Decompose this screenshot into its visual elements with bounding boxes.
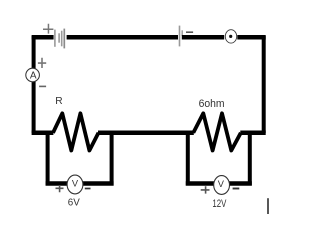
wire: right drop of 12V voltmeter loop	[248, 131, 252, 186]
battery B1 plate 2 (short)	[58, 33, 60, 42]
wire: top wire segment left of battery B1	[32, 35, 54, 40]
svg-text:6V: 6V	[68, 198, 80, 209]
wire: right vertical of main loop	[262, 36, 266, 133]
svg-text:V: V	[218, 179, 225, 189]
wire: middle rail between resistors	[98, 131, 194, 136]
minus sign of ammeter	[39, 85, 46, 87]
resistor 6ohm zigzag	[193, 113, 241, 150]
wire: middle rail right stub	[240, 131, 265, 136]
stray text cursor mark	[267, 198, 269, 214]
battery B1 plate 4 (longest)	[63, 29, 65, 49]
wire: right drop of 6V voltmeter loop	[110, 131, 114, 186]
cell B2 short plate	[181, 30, 183, 36]
svg-text:R: R	[55, 96, 62, 107]
wire: top wire segment between battery B1 and cell B2	[67, 35, 178, 40]
minus sign at 6V voltmeter	[85, 188, 91, 190]
cell B2 long plate	[179, 26, 181, 47]
minus sign of cell B2	[186, 31, 193, 33]
wire: bottom wire of 6V voltmeter loop	[46, 181, 114, 186]
ammeter A1	[26, 68, 40, 82]
wire: top wire segment right of lamp	[237, 35, 265, 40]
svg-text:6ohm: 6ohm	[199, 98, 225, 110]
battery B1 plate 1 (long)	[54, 30, 56, 47]
resistor R zigzag	[53, 113, 99, 150]
wire: top wire segment between cell B2 and lamp	[182, 35, 224, 40]
wire: bottom wire of 12V voltmeter loop	[186, 181, 252, 186]
plus sign of ammeter	[38, 58, 46, 68]
voltmeter V2 (12V)	[214, 176, 230, 195]
minus sign at 12V voltmeter	[233, 188, 240, 190]
wire: middle rail left stub	[32, 131, 54, 136]
wire: left vertical of main loop	[32, 36, 36, 133]
plus sign at 6V voltmeter	[56, 185, 64, 192]
wire: left drop of 6V voltmeter loop	[46, 131, 50, 186]
svg-text:V: V	[72, 178, 79, 188]
wire: left drop of 12V voltmeter loop	[186, 131, 190, 186]
lamp L1 (circle with dot)	[225, 30, 236, 43]
plus sign of battery B1	[43, 24, 53, 34]
svg-text:12V: 12V	[212, 198, 226, 210]
battery B1 plate 3 (long)	[61, 31, 63, 47]
plus sign at 12V voltmeter	[201, 186, 210, 193]
voltmeter V1 (6V)	[67, 175, 83, 194]
svg-text:A: A	[30, 70, 37, 81]
